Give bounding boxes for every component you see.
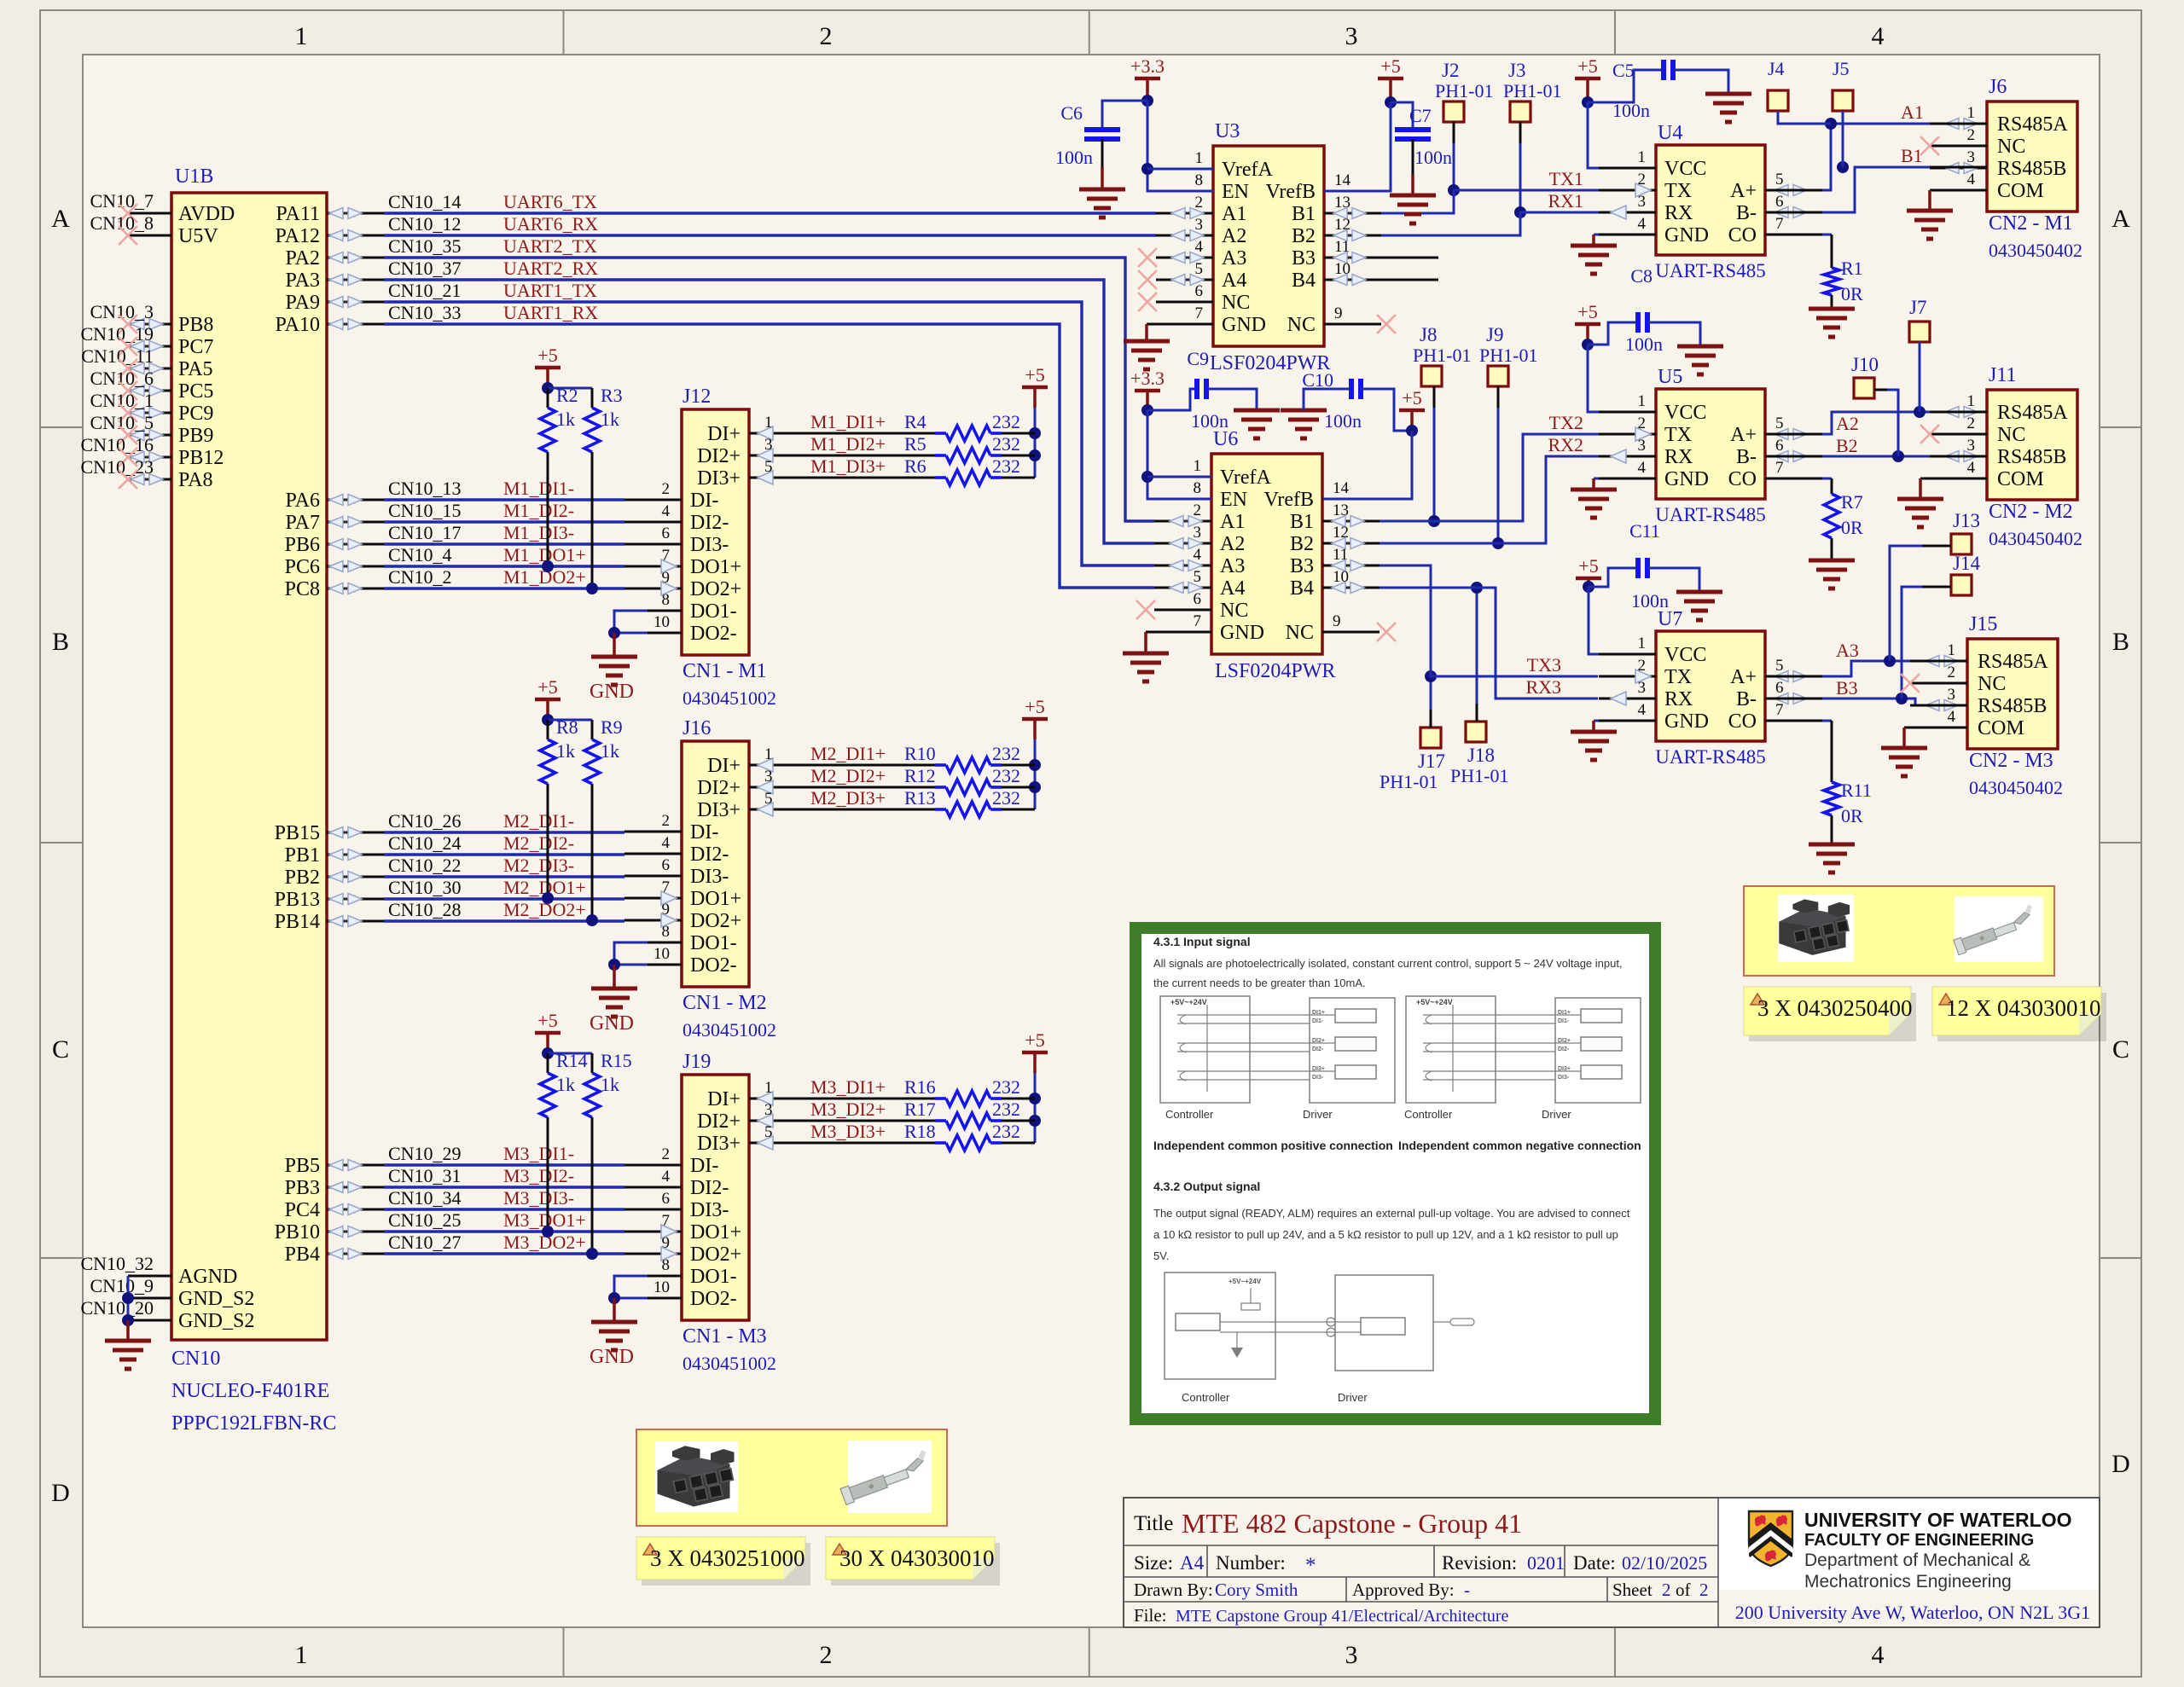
svg-text:A1: A1 [1901,101,1924,123]
svg-text:6: 6 [1775,437,1784,455]
svg-text:M3_DI3+: M3_DI3+ [810,1121,886,1142]
svg-text:CN10_29: CN10_29 [388,1143,462,1164]
svg-text:1: 1 [764,1079,773,1097]
svg-text:GND_S2: GND_S2 [178,1310,254,1332]
svg-text:6: 6 [1195,282,1204,300]
svg-text:100n: 100n [1055,147,1093,168]
svg-text:1k: 1k [601,1074,619,1095]
svg-text:B1: B1 [1290,511,1314,533]
svg-text:CN10_12: CN10_12 [388,213,462,235]
svg-text:5: 5 [764,1123,773,1141]
svg-text:+5: +5 [1577,301,1597,322]
svg-text:DO1+: DO1+ [690,888,741,910]
svg-text:R18: R18 [904,1121,936,1142]
svg-text:PH1-01: PH1-01 [1479,345,1537,366]
svg-text:DI+: DI+ [707,755,741,777]
svg-text:1k: 1k [601,409,619,430]
svg-text:+5: +5 [1380,55,1400,77]
svg-text:MTE Capstone Group 41/Electric: MTE Capstone Group 41/Electrical/Archite… [1176,1607,1509,1626]
svg-text:10: 10 [1333,568,1349,586]
svg-text:9: 9 [1334,304,1343,322]
svg-text:File:: File: [1134,1605,1167,1626]
svg-text:+5: +5 [537,345,557,366]
svg-text:Size:: Size: [1134,1552,1173,1574]
svg-text:+5: +5 [1402,387,1421,409]
svg-text:0430450402: 0430450402 [1969,777,2063,798]
svg-text:DI3+: DI3+ [1312,1066,1325,1072]
svg-text:0430450402: 0430450402 [1989,240,2082,261]
svg-text:PH1-01: PH1-01 [1503,80,1561,101]
svg-text:Title: Title [1134,1512,1173,1535]
svg-text:6: 6 [1194,590,1202,608]
svg-text:10: 10 [653,1278,670,1296]
svg-text:U5V: U5V [178,225,218,247]
svg-text:GND_S2: GND_S2 [178,1288,254,1310]
svg-text:COM: COM [1997,468,2044,490]
svg-text:B3: B3 [1292,247,1316,270]
svg-text:3: 3 [764,1101,773,1119]
svg-text:PB1: PB1 [285,844,320,867]
svg-text:DI1-: DI1- [1312,1018,1324,1024]
svg-text:CN10_27: CN10_27 [388,1232,462,1253]
svg-text:TX3: TX3 [1527,654,1561,675]
svg-text:C6: C6 [1060,102,1083,124]
svg-text:VCC: VCC [1664,158,1706,180]
svg-text:NUCLEO-F401RE: NUCLEO-F401RE [171,1380,329,1402]
svg-text:CN10_32: CN10_32 [80,1253,154,1274]
svg-text:J15: J15 [1969,613,1997,635]
svg-text:J19: J19 [682,1051,711,1073]
svg-text:DI-: DI- [690,490,718,512]
svg-text:GND: GND [1664,224,1709,246]
svg-text:RS485A: RS485A [1978,651,2048,673]
svg-text:DI2-: DI2- [690,1177,729,1199]
svg-text:Cory Smith: Cory Smith [1215,1580,1298,1600]
svg-text:+5: +5 [1025,1029,1044,1051]
svg-text:A2: A2 [1222,225,1246,247]
svg-text:2: 2 [662,812,671,830]
svg-text:A1: A1 [1222,203,1246,225]
svg-text:M2_DI1+: M2_DI1+ [810,743,886,764]
svg-text:02/10/2025: 02/10/2025 [1622,1552,1707,1574]
svg-text:PA9: PA9 [286,292,320,314]
svg-text:M1_DI3+: M1_DI3+ [810,455,886,477]
svg-text:+5: +5 [1025,696,1044,717]
svg-text:J17: J17 [1418,751,1445,772]
svg-text:13: 13 [1334,194,1350,212]
svg-text:CN10_23: CN10_23 [80,456,154,478]
svg-text:PC5: PC5 [178,380,213,403]
svg-text:3: 3 [1638,679,1647,697]
svg-text:DI3+: DI3+ [697,467,741,490]
svg-text:PB9: PB9 [178,425,213,447]
svg-text:2: 2 [1662,1580,1671,1600]
svg-text:DO1+: DO1+ [690,556,741,578]
svg-text:GND: GND [1664,468,1709,490]
svg-text:DI3-: DI3- [1312,1075,1324,1081]
svg-text:1: 1 [1638,635,1647,652]
svg-text:PB8: PB8 [178,314,213,336]
svg-text:UNIVERSITY OF WATERLOO: UNIVERSITY OF WATERLOO [1804,1509,2072,1531]
svg-text:7: 7 [1775,701,1784,719]
svg-text:4: 4 [1872,22,1885,50]
svg-text:EN: EN [1222,181,1249,203]
svg-text:M2_DI1-: M2_DI1- [503,810,574,832]
svg-text:2: 2 [662,480,671,498]
svg-text:0430451002: 0430451002 [682,687,776,709]
svg-text:A2: A2 [1836,413,1859,434]
svg-text:R6: R6 [904,455,926,477]
svg-text:UART1_RX: UART1_RX [503,302,598,323]
svg-text:A4: A4 [1220,577,1245,600]
svg-text:5: 5 [1775,415,1784,432]
svg-text:VrefA: VrefA [1222,159,1274,181]
svg-text:4: 4 [662,1168,671,1186]
svg-text:Controller: Controller [1182,1391,1230,1404]
svg-text:0430451002: 0430451002 [682,1019,776,1041]
svg-text:8: 8 [1195,171,1204,189]
svg-text:R1: R1 [1841,258,1863,279]
svg-text:Driver: Driver [1303,1108,1333,1121]
svg-text:NC: NC [1997,136,2025,158]
svg-text:3 X 0430251000: 3 X 0430251000 [650,1545,805,1571]
svg-text:1k: 1k [556,409,575,430]
svg-text:CN10_22: CN10_22 [388,855,462,876]
svg-text:R7: R7 [1841,491,1863,513]
svg-text:MTE 482 Capstone - Group 41: MTE 482 Capstone - Group 41 [1182,1508,1522,1539]
svg-text:DI1+: DI1+ [1558,1010,1571,1016]
svg-text:R4: R4 [904,411,926,432]
svg-text:232: 232 [992,765,1020,786]
svg-text:RX: RX [1664,446,1693,468]
svg-text:Driver: Driver [1338,1391,1368,1404]
svg-text:A+: A+ [1730,180,1757,202]
svg-text:7: 7 [1775,215,1784,233]
svg-text:5: 5 [1195,260,1204,278]
svg-text:5: 5 [1194,568,1202,586]
svg-text:9: 9 [1333,612,1341,630]
svg-text:A: A [2111,205,2130,233]
svg-text:CN1 - M2: CN1 - M2 [682,992,767,1014]
svg-text:DI+: DI+ [707,1088,741,1110]
svg-text:3: 3 [1345,22,1358,50]
svg-text:4: 4 [1638,215,1647,233]
svg-text:DI2-: DI2- [1558,1046,1570,1052]
svg-text:A+: A+ [1730,666,1757,688]
svg-text:Drawn By:: Drawn By: [1134,1580,1213,1600]
svg-text:TX: TX [1664,424,1692,446]
svg-text:232: 232 [992,455,1020,477]
svg-text:C5: C5 [1612,60,1635,81]
svg-text:DI2+: DI2+ [697,777,741,799]
svg-text:2: 2 [1967,415,1976,432]
svg-text:0R: 0R [1841,283,1863,304]
svg-text:DI1+: DI1+ [1312,1010,1325,1016]
svg-text:GND: GND [1664,710,1709,733]
svg-text:PC7: PC7 [178,336,213,358]
svg-text:232: 232 [992,743,1020,764]
svg-text:0R: 0R [1841,517,1863,538]
svg-text:R13: R13 [904,787,936,809]
svg-text:4: 4 [662,502,671,520]
svg-text:R3: R3 [601,385,623,406]
svg-text:M3_DI3-: M3_DI3- [503,1187,574,1209]
svg-text:+5V~+24V: +5V~+24V [1228,1278,1262,1285]
svg-text:M3_DI1-: M3_DI1- [503,1143,574,1164]
svg-text:PPPC192LFBN-RC: PPPC192LFBN-RC [171,1412,336,1435]
svg-text:J14: J14 [1953,553,1980,574]
svg-text:GND: GND [590,1012,634,1035]
svg-text:C: C [52,1035,69,1064]
svg-text:12 X 043030010: 12 X 043030010 [1946,995,2101,1021]
svg-text:B: B [52,628,69,656]
svg-text:232: 232 [992,411,1020,432]
svg-text:TX: TX [1664,180,1692,202]
svg-text:NC: NC [1222,292,1250,314]
svg-text:RS485B: RS485B [1978,695,2047,717]
svg-text:R11: R11 [1841,780,1872,801]
svg-text:4: 4 [1967,171,1976,188]
svg-text:J6: J6 [1989,76,2007,98]
svg-text:UART-RS485: UART-RS485 [1655,260,1765,281]
svg-text:J2: J2 [1442,60,1459,81]
svg-text:U1B: U1B [175,165,213,188]
svg-text:232: 232 [992,1121,1020,1142]
svg-text:4: 4 [1638,459,1647,477]
svg-text:A+: A+ [1730,424,1757,446]
svg-text:CN10_19: CN10_19 [80,323,154,345]
svg-text:DI3+: DI3+ [697,799,741,821]
svg-text:AVDD: AVDD [178,203,235,225]
svg-text:4: 4 [1967,459,1976,477]
svg-text:AGND: AGND [178,1266,237,1288]
svg-text:DO2+: DO2+ [690,578,741,600]
svg-text:DI3-: DI3- [1558,1075,1570,1081]
svg-text:All signals are photoelectrica: All signals are photoelectrically isolat… [1153,957,1623,970]
svg-text:PC4: PC4 [285,1199,320,1221]
svg-text:DO1+: DO1+ [690,1221,741,1244]
svg-text:DI2+: DI2+ [1312,1038,1325,1044]
svg-text:B2: B2 [1292,225,1316,247]
svg-text:NC: NC [1978,673,2006,695]
svg-text:J5: J5 [1833,58,1850,79]
svg-text:COM: COM [1978,717,2024,739]
svg-text:232: 232 [992,1076,1020,1098]
svg-text:1: 1 [295,22,308,50]
svg-text:PA10: PA10 [276,314,320,336]
svg-text:CN2 - M1: CN2 - M1 [1989,212,2073,235]
svg-text:100n: 100n [1191,410,1228,432]
svg-text:PH1-01: PH1-01 [1450,765,1508,786]
svg-text:DI3+: DI3+ [697,1133,741,1155]
svg-text:VCC: VCC [1664,402,1706,424]
svg-text:J12: J12 [682,386,711,408]
svg-text:4: 4 [1872,1641,1885,1669]
svg-text:1k: 1k [556,1074,575,1095]
svg-text:200 University Ave W, Waterlo: 200 University Ave W, Waterloo, ON N2L 3… [1735,1602,2090,1623]
svg-text:the current needs to be greate: the current needs to be greater than 10m… [1153,977,1366,989]
svg-text:PA7: PA7 [286,512,320,534]
svg-text:+3.3: +3.3 [1130,55,1165,77]
svg-text:2: 2 [820,1641,833,1669]
svg-text:B2: B2 [1836,435,1858,456]
svg-text:TX2: TX2 [1549,412,1583,433]
svg-text:13: 13 [1333,501,1349,519]
svg-text:RS485B: RS485B [1997,158,2066,180]
svg-text:A3: A3 [1836,640,1859,661]
svg-text:+5V~+24V: +5V~+24V [1416,998,1453,1006]
svg-text:Driver: Driver [1542,1108,1571,1121]
svg-text:NC: NC [1220,600,1248,622]
svg-text:Independent common positive co: Independent common positive connection [1153,1139,1393,1152]
svg-text:DO1-: DO1- [690,1266,737,1288]
svg-text:RS485B: RS485B [1997,446,2066,468]
svg-text:CN10_16: CN10_16 [80,434,154,455]
svg-text:A1: A1 [1220,511,1245,533]
svg-text:TX1: TX1 [1549,168,1583,189]
svg-text:B-: B- [1736,202,1757,224]
svg-text:2: 2 [1948,664,1956,681]
svg-text:1: 1 [764,745,773,763]
svg-text:VrefB: VrefB [1265,181,1316,203]
svg-text:The output signal (READY, ALM): The output signal (READY, ALM) requires … [1153,1207,1630,1220]
svg-text:6: 6 [1775,679,1784,697]
svg-text:CN10_4: CN10_4 [388,544,452,565]
svg-text:PB2: PB2 [285,867,320,889]
svg-text:CN10_34: CN10_34 [388,1187,462,1209]
svg-text:CO: CO [1728,710,1757,733]
svg-text:PB12: PB12 [178,447,224,469]
svg-text:A4: A4 [1180,1552,1205,1574]
svg-text:4: 4 [1638,701,1647,719]
svg-text:D: D [51,1479,70,1507]
svg-text:4.3.2 Output signal: 4.3.2 Output signal [1153,1180,1260,1193]
svg-text:DI2+: DI2+ [697,1110,741,1133]
svg-text:1k: 1k [601,740,619,762]
svg-text:CN10_13: CN10_13 [388,478,462,499]
svg-text:5V.: 5V. [1153,1249,1169,1262]
svg-text:PC6: PC6 [285,556,320,578]
svg-text:M1_DI2+: M1_DI2+ [810,433,886,455]
svg-text:4: 4 [1948,708,1956,726]
svg-text:RS485A: RS485A [1997,402,2068,424]
svg-text:C7: C7 [1409,105,1432,126]
svg-text:PA12: PA12 [276,225,320,247]
svg-text:C11: C11 [1629,520,1660,542]
svg-text:B1: B1 [1292,203,1316,225]
svg-text:232: 232 [992,433,1020,455]
svg-text:M2_DI2+: M2_DI2+ [810,765,886,786]
svg-text:DI2+: DI2+ [1558,1038,1571,1044]
svg-text:UART1_TX: UART1_TX [503,280,597,301]
svg-text:UART-RS485: UART-RS485 [1655,746,1765,768]
svg-text:R12: R12 [904,765,936,786]
svg-text:DI2-: DI2- [690,843,729,866]
svg-text:CN10: CN10 [171,1348,220,1370]
svg-text:3: 3 [764,768,773,786]
svg-text:M3_DI2+: M3_DI2+ [810,1099,886,1120]
svg-text:J18: J18 [1467,745,1495,766]
svg-text:6: 6 [1775,193,1784,211]
svg-text:CN10_15: CN10_15 [388,500,462,521]
svg-text:J10: J10 [1851,354,1879,375]
svg-text:R2: R2 [556,385,578,406]
svg-text:PB4: PB4 [285,1244,320,1266]
svg-text:CN10_28: CN10_28 [388,899,462,920]
svg-text:PB14: PB14 [275,911,320,933]
svg-text:CN1 - M1: CN1 - M1 [682,660,767,682]
svg-text:DI2-: DI2- [690,512,729,534]
svg-text:CN1 - M3: CN1 - M3 [682,1325,767,1348]
svg-text:14: 14 [1334,171,1351,189]
svg-text:U5: U5 [1658,366,1682,388]
svg-text:UART2_RX: UART2_RX [503,258,598,279]
svg-text:LSF0204PWR: LSF0204PWR [1215,660,1335,682]
svg-text:RX: RX [1664,688,1693,710]
svg-text:PB15: PB15 [275,822,320,844]
svg-text:EN: EN [1220,489,1247,511]
svg-text:10: 10 [653,613,670,631]
svg-text:3: 3 [1194,524,1202,542]
svg-text:RX: RX [1664,202,1693,224]
svg-text:5: 5 [1775,657,1784,675]
svg-text:R10: R10 [904,743,936,764]
svg-text:DI3-: DI3- [690,534,729,556]
svg-text:PH1-01: PH1-01 [1435,80,1493,101]
svg-text:R9: R9 [601,716,623,738]
svg-text:4: 4 [1195,238,1204,256]
svg-text:R16: R16 [904,1076,936,1098]
svg-text:Approved By:: Approved By: [1352,1580,1455,1600]
svg-text:A4: A4 [1222,270,1246,292]
svg-text:Controller: Controller [1165,1108,1214,1121]
svg-text:232: 232 [992,1099,1020,1120]
svg-text:6: 6 [662,1190,671,1208]
svg-text:0430451002: 0430451002 [682,1353,776,1374]
svg-text:1: 1 [1638,392,1647,410]
svg-text:2: 2 [662,1145,671,1163]
svg-text:6: 6 [662,525,671,542]
svg-text:*: * [1305,1554,1316,1577]
svg-text:+5: +5 [1578,555,1598,577]
svg-text:D: D [2111,1450,2130,1478]
svg-text:TX: TX [1664,666,1692,688]
svg-text:5: 5 [764,790,773,808]
svg-text:CN10_9: CN10_9 [90,1275,154,1296]
svg-text:B3: B3 [1290,555,1314,577]
svg-text:CO: CO [1728,224,1757,246]
svg-text:B2: B2 [1290,533,1314,555]
svg-text:J11: J11 [1989,364,2016,386]
svg-text:M2_DI3+: M2_DI3+ [810,787,886,809]
svg-text:2: 2 [1699,1580,1709,1600]
svg-text:7: 7 [1775,459,1784,477]
svg-text:1: 1 [1194,457,1202,475]
svg-text:+5: +5 [537,676,557,698]
svg-text:PB6: PB6 [285,534,320,556]
svg-text:+5: +5 [1025,364,1044,386]
svg-text:CN10_33: CN10_33 [388,302,462,323]
svg-text:UART6_TX: UART6_TX [503,191,597,212]
svg-text:100n: 100n [1625,333,1663,355]
svg-text:M1_DI1+: M1_DI1+ [810,411,886,432]
svg-text:M2_DI2-: M2_DI2- [503,832,574,854]
svg-text:12: 12 [1333,524,1349,542]
svg-text:3: 3 [764,436,773,454]
svg-text:GND: GND [590,681,634,703]
svg-text:M1_DI1-: M1_DI1- [503,478,574,499]
svg-text:3: 3 [1638,437,1647,455]
